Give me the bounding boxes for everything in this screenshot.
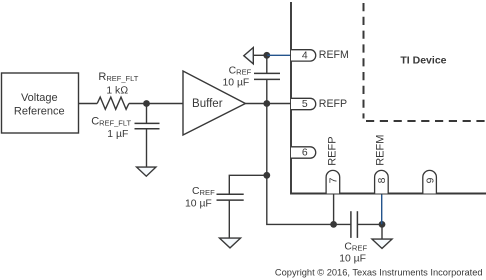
svg-text:10 µF: 10 µF — [223, 78, 250, 89]
svg-text:Buffer: Buffer — [192, 98, 223, 110]
wire (buffer output to pin 5) — [245, 103, 291, 105]
wire — [266, 55, 268, 73]
pin 5 — [291, 98, 316, 110]
wire — [266, 79, 268, 103]
svg-text:Voltage: Voltage — [21, 92, 58, 104]
wire — [266, 104, 268, 176]
svg-text:Copyright © 2016, Texas Instru: Copyright © 2016, Texas Instruments Inco… — [275, 267, 483, 277]
wire (blue, to pin 4) — [267, 54, 291, 56]
wire — [381, 224, 383, 239]
svg-text:7: 7 — [329, 177, 340, 183]
svg-text:9: 9 — [425, 177, 436, 183]
wire (pin 7 to node) — [333, 194, 335, 225]
wire — [357, 223, 382, 225]
wire — [229, 175, 266, 194]
pin 9 — [423, 170, 437, 193]
svg-text:10 µF: 10 µF — [339, 253, 366, 264]
wire (blue, pin 8 to node) — [381, 194, 383, 225]
capacitor C_REF (top) — [223, 66, 281, 89]
pin 4 — [291, 50, 316, 62]
svg-text:10 µF: 10 µF — [185, 198, 212, 209]
node junction — [330, 221, 337, 228]
svg-text:CREF_FLT: CREF_FLT — [91, 116, 131, 128]
svg-text:REFM: REFM — [319, 49, 349, 61]
node junction — [263, 100, 270, 107]
wire — [253, 54, 266, 56]
capacitor C_REF (bottom) — [339, 211, 367, 264]
svg-text:RREF_FLT: RREF_FLT — [98, 71, 138, 83]
svg-text:8: 8 — [377, 177, 388, 183]
pin 8 — [375, 170, 389, 193]
node junction — [143, 100, 150, 107]
svg-text:CREF: CREF — [344, 242, 367, 253]
wire — [228, 200, 230, 238]
svg-text:6: 6 — [302, 148, 308, 159]
capacitor C_REF (left bottom) — [185, 186, 244, 209]
svg-text:TI Device: TI Device — [400, 54, 446, 66]
wire — [267, 175, 334, 224]
svg-text:1 kΩ: 1 kΩ — [106, 85, 128, 96]
pin 6 — [291, 147, 316, 159]
capacitor C_REF_FLT — [91, 116, 159, 141]
wire — [79, 103, 98, 105]
svg-text:REFP: REFP — [327, 136, 339, 165]
resistor R_REF_FLT — [97, 71, 139, 109]
voltage reference box — [2, 73, 79, 133]
wire — [334, 223, 351, 225]
ground — [372, 239, 392, 248]
TI device outline (dashed) — [364, 3, 486, 121]
svg-text:Reference: Reference — [14, 105, 65, 117]
wire — [129, 103, 183, 105]
wire — [146, 129, 148, 167]
node junction — [379, 221, 386, 228]
node junction — [263, 52, 270, 59]
svg-text:5: 5 — [302, 99, 308, 110]
svg-text:4: 4 — [302, 51, 308, 62]
node junction — [263, 172, 270, 179]
svg-text:REFM: REFM — [374, 135, 386, 166]
input arrow connector — [244, 48, 254, 64]
svg-text:CREF: CREF — [229, 66, 252, 77]
ground — [220, 238, 241, 248]
ground — [137, 167, 156, 176]
wire — [146, 104, 148, 124]
svg-text:1 µF: 1 µF — [107, 129, 128, 140]
pin 7 — [326, 170, 340, 193]
svg-text:REFP: REFP — [319, 98, 347, 110]
TI device package edge (solid) — [291, 2, 486, 194]
svg-text:CREF: CREF — [192, 186, 215, 197]
op-amp buffer U1 — [183, 71, 245, 135]
